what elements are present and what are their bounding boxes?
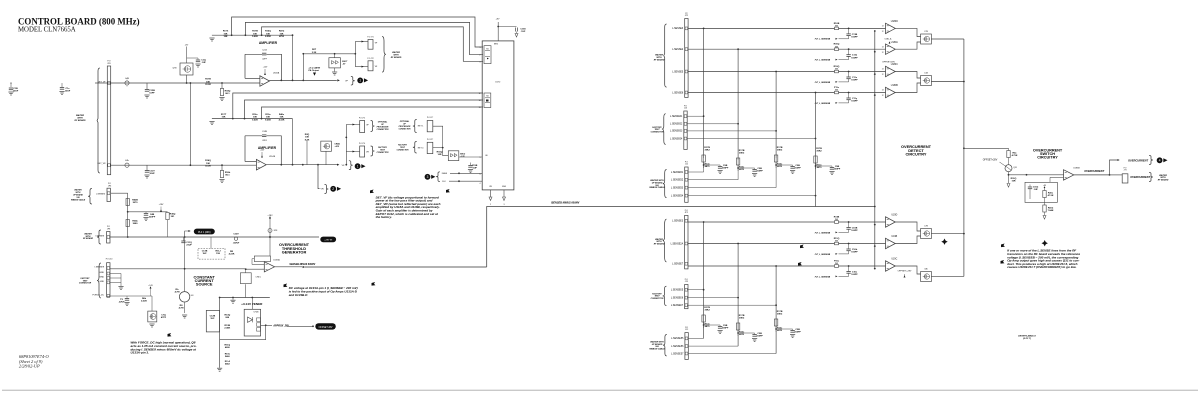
svg-text:FLT_L_SENSE6B: FLT_L_SENSE6B: [815, 254, 831, 256]
svg-text:GENERATOR: GENERATOR: [282, 250, 307, 255]
svg-text:TEST: TEST: [83, 280, 89, 282]
svg-text:FLT_L_SENSE6B: FLT_L_SENSE6B: [815, 103, 831, 105]
svg-text:OFFSET.28V: OFFSET.28V: [882, 61, 895, 63]
svg-text:.1UF: .1UF: [472, 168, 477, 170]
svg-text:10K: 10K: [206, 163, 210, 165]
svg-text:R7x2: R7x2: [225, 361, 231, 363]
svg-text:10K: 10K: [266, 33, 270, 35]
svg-text:WAITER: WAITER: [76, 115, 85, 117]
svg-text:1: 1: [359, 79, 361, 83]
svg-text:L.SENSE55: L.SENSE55: [671, 338, 684, 340]
svg-text:CONNECTOR: CONNECTOR: [79, 283, 92, 285]
svg-text:RF BOARD: RF BOARD: [1158, 179, 1169, 181]
svg-text:CIRCUITRY: CIRCUITRY: [905, 152, 926, 157]
svg-text:OFFSET 28V: OFFSET 28V: [319, 327, 333, 329]
svg-text:J13: J13: [685, 281, 688, 283]
svg-text:U19B: U19B: [891, 236, 897, 238]
svg-text:R17B: R17B: [739, 315, 745, 317]
svg-text:P.O: P.O: [108, 183, 112, 185]
svg-text:R17B: R17B: [704, 307, 710, 309]
svg-text:VIA: VIA: [655, 346, 659, 348]
svg-text:FLT_L_SENSE6B: FLT_L_SENSE6B: [815, 60, 831, 62]
svg-text:C13B: C13B: [202, 251, 208, 253]
svg-text:100PF: 100PF: [851, 252, 858, 254]
svg-text:M2: M2: [486, 96, 488, 98]
svg-text:4: 4: [480, 183, 481, 185]
svg-text:UP BOARD: UP BOARD: [652, 344, 663, 346]
svg-text:FACTORY: FACTORY: [652, 127, 662, 129]
svg-text:C9B: C9B: [795, 329, 800, 331]
svg-text:4: 4: [480, 61, 481, 63]
svg-text:TEST: TEST: [654, 296, 660, 298]
svg-text:P.O J?2: P.O J?2: [359, 118, 365, 120]
svg-text:WAITER: WAITER: [84, 234, 92, 236]
svg-text:R16Q: R16Q: [437, 152, 443, 154]
svg-text:MRG: MRG: [494, 44, 499, 46]
svg-text:100PF: 100PF: [794, 332, 801, 334]
svg-text:R17B: R17B: [252, 31, 258, 33]
svg-text:FACTORY: FACTORY: [81, 278, 91, 280]
svg-text:3670: 3670: [133, 202, 139, 204]
svg-text:causes U1069-PH 7 (OVERCURREN: causes U1069-PH 7 (OVERCURRENT) to go lo…: [1007, 265, 1076, 269]
svg-text:CIRCUITRY: CIRCUITRY: [1037, 156, 1058, 160]
svg-text:R13Q: R13Q: [224, 315, 230, 317]
svg-text:10K: 10K: [279, 33, 283, 35]
svg-text:2: 2: [490, 204, 491, 206]
svg-text:J13: J13: [684, 108, 687, 110]
svg-text:10UF: 10UF: [13, 91, 19, 93]
svg-text:C11y: C11y: [852, 98, 858, 100]
svg-text:R17T: R17T: [221, 114, 227, 116]
svg-text:10R: 10R: [1011, 181, 1015, 183]
svg-text:R2Q: R2Q: [305, 134, 310, 136]
svg-text:L.SENSE06: L.SENSE06: [671, 297, 684, 299]
svg-text:8.25K: 8.25K: [265, 36, 271, 38]
svg-text:L.SENSE57: L.SENSE57: [671, 353, 684, 355]
svg-text:U114B: U114B: [269, 156, 276, 158]
svg-text:R11J: R11J: [215, 251, 221, 253]
svg-text:.1UF: .1UF: [1033, 189, 1038, 191]
svg-text:RF BOARD: RF BOARD: [83, 238, 94, 240]
svg-text:3: 3: [480, 47, 481, 49]
svg-text:L.SENSE01: L.SENSE01: [670, 116, 683, 118]
svg-text:R11B: R11B: [834, 216, 840, 218]
svg-text:L.SENSE07: L.SENSE07: [671, 305, 684, 307]
svg-text:100PF: 100PF: [851, 274, 858, 276]
svg-text:FACTORY: FACTORY: [398, 144, 408, 146]
svg-text:100PF: 100PF: [851, 37, 858, 39]
svg-text:SENSEB MINUS 600MV: SENSEB MINUS 600MV: [289, 264, 315, 266]
svg-text:OFFSET+28V: OFFSET+28V: [898, 271, 912, 273]
svg-text:2: 2: [480, 55, 481, 57]
svg-text:+28V: +28V: [159, 204, 164, 206]
svg-text:P.O: P.O: [107, 61, 111, 63]
svg-text:C10b: C10b: [852, 249, 858, 251]
svg-text:+8V: +8V: [496, 19, 500, 21]
svg-text:33.2K: 33.2K: [205, 84, 211, 86]
svg-text:R17B: R17B: [777, 147, 783, 149]
svg-text:RE: RE: [230, 251, 234, 253]
svg-text:P.O: P.O: [684, 105, 688, 107]
svg-text:P.O: P.O: [685, 327, 689, 329]
svg-text:R18Q: R18Q: [225, 91, 231, 93]
svg-text:10UF: 10UF: [149, 173, 155, 175]
svg-text:R17B: R17B: [816, 148, 822, 150]
svg-text:L.SENSE02: L.SENSE02: [670, 124, 683, 126]
svg-text:RET 1: RET 1: [418, 126, 425, 128]
svg-text:PROCESSOR: PROCESSOR: [377, 127, 389, 129]
svg-text:10K: 10K: [279, 117, 283, 119]
svg-text:5: 5: [480, 157, 481, 159]
svg-text:P.O J10: P.O J10: [106, 259, 113, 261]
svg-text:OFFSET+28V: OFFSET+28V: [983, 160, 998, 162]
svg-text:5.62K: 5.62K: [252, 36, 258, 38]
svg-text:RIBBON CABLE: RIBBON CABLE: [649, 348, 665, 350]
svg-text:WITH: WITH: [656, 241, 662, 243]
svg-text:JP2: JP2: [685, 212, 688, 214]
svg-text:I.SENSE9: I.SENSE9: [95, 267, 105, 269]
svg-text:L.SENSE05: L.SENSE05: [671, 290, 684, 292]
svg-text:100PF: 100PF: [756, 171, 763, 173]
svg-text:R18b: R18b: [225, 172, 231, 174]
svg-text:U180B: U180B: [891, 85, 898, 87]
svg-text:+12V: +12V: [335, 146, 340, 148]
svg-text:OPTIONAL: OPTIONAL: [400, 121, 410, 123]
svg-text:100PF: 100PF: [851, 57, 858, 59]
svg-text:U180C: U180C: [891, 64, 898, 66]
svg-text:WAITER: WAITER: [1159, 175, 1167, 177]
svg-text:JP6: JP6: [108, 185, 111, 187]
svg-text:12: 12: [479, 93, 481, 95]
svg-text:1UF: 1UF: [210, 318, 215, 320]
svg-text:RIBBON CABLE: RIBBON CABLE: [71, 200, 86, 202]
svg-text:10K: 10K: [206, 81, 210, 83]
svg-text:C24B: C24B: [262, 131, 268, 133]
svg-text:39K2: 39K2: [816, 151, 822, 153]
svg-text:ISENSEB MINUS 600MV: ISENSEB MINUS 600MV: [551, 202, 580, 205]
svg-text:R19x: R19x: [265, 114, 271, 116]
svg-text:C15B: C15B: [149, 90, 155, 92]
svg-text:+28V: +28V: [267, 215, 273, 217]
svg-text:UP BOARD: UP BOARD: [73, 195, 83, 197]
svg-text:JP2: JP2: [685, 15, 688, 17]
svg-text:P.O J?2: P.O J?2: [367, 58, 373, 60]
svg-text:L.SENSE2: L.SENSE2: [672, 49, 684, 51]
svg-text:C9B: C9B: [723, 165, 728, 167]
svg-text:OPTIONAL: OPTIONAL: [378, 121, 388, 123]
svg-text:10R: 10R: [437, 154, 441, 156]
svg-text:WITH: WITH: [393, 54, 399, 56]
svg-text:U172: U172: [495, 82, 501, 84]
svg-text:P.O J?4: P.O J?4: [359, 143, 365, 145]
svg-text:R10B: R10B: [834, 23, 840, 25]
svg-text:39K2: 39K2: [739, 318, 745, 320]
svg-text:51PF: 51PF: [149, 93, 155, 95]
svg-text:C8b: C8b: [924, 269, 927, 271]
svg-text:L.SENSE53: L.SENSE53: [671, 187, 684, 189]
svg-text:UP BOARD: UP BOARD: [652, 183, 663, 185]
svg-text:P10x: P10x: [834, 260, 840, 262]
svg-text:8.25K: 8.25K: [265, 119, 271, 121]
svg-text:100PF: 100PF: [794, 168, 801, 170]
svg-text:220PF: 220PF: [149, 217, 156, 219]
svg-text:C11x: C11x: [852, 77, 858, 79]
svg-text:SOURCE: SOURCE: [196, 282, 213, 287]
svg-text:P.O: P.O: [685, 279, 689, 281]
svg-text:R17B: R17B: [704, 147, 710, 149]
svg-text:39K2: 39K2: [739, 153, 745, 155]
svg-text:P.O: P.O: [685, 161, 689, 163]
svg-text:WITH: WITH: [1160, 177, 1166, 179]
svg-text:L.SENSE03: L.SENSE03: [670, 131, 683, 133]
svg-text:RF BOARD: RF BOARD: [74, 120, 86, 122]
svg-text:MM-T: MM-T: [342, 61, 348, 63]
svg-text:R16x: R16x: [252, 114, 258, 116]
svg-text:J?3: J?3: [1124, 170, 1127, 172]
svg-text:GND: GND: [99, 272, 104, 274]
svg-text:P11x: P11x: [834, 87, 840, 89]
svg-text:Q7B: Q7B: [172, 68, 177, 70]
svg-text:RF BOARD: RF BOARD: [654, 59, 665, 61]
svg-text:PROCESSOR: PROCESSOR: [399, 126, 411, 128]
svg-text:WAITER: WAITER: [655, 55, 663, 57]
svg-text:R6b: R6b: [142, 298, 147, 300]
svg-text:5: 5: [480, 174, 481, 176]
svg-text:FLT_L_SENSE6B: FLT_L_SENSE6B: [815, 39, 831, 41]
svg-text:R17h: R17h: [223, 31, 229, 33]
svg-text:WAITER WITH: WAITER WITH: [650, 342, 664, 344]
svg-text:MM-b: MM-b: [460, 154, 466, 156]
svg-text:2/28/02-UP: 2/28/02-UP: [19, 364, 40, 369]
svg-text:C9B: C9B: [757, 333, 762, 335]
svg-text:39K2: 39K2: [704, 150, 710, 152]
svg-text:C9B: C9B: [795, 165, 800, 167]
svg-text:AMPLIFIER: AMPLIFIER: [259, 41, 278, 45]
svg-text:CONNECTOR: CONNECTOR: [377, 129, 390, 131]
svg-text:TEST: TEST: [654, 129, 660, 131]
svg-text:10K: 10K: [221, 117, 225, 119]
svg-text:CONNECTOR: CONNECTOR: [399, 129, 412, 131]
svg-text:WITH: WITH: [86, 236, 91, 238]
svg-text:CLK: CLK: [442, 181, 447, 183]
svg-text:R11b: R11b: [225, 353, 231, 355]
svg-text:CONNECTOR: CONNECTOR: [397, 150, 410, 152]
svg-text:FLT_L_SENSE6B: FLT_L_SENSE6B: [815, 232, 831, 234]
svg-text:U19C: U19C: [891, 259, 897, 261]
svg-text:C11B: C11B: [852, 34, 858, 36]
svg-text:CONNECTOR: CONNECTOR: [651, 132, 664, 134]
svg-text:+28V IN: +28V IN: [324, 240, 332, 242]
svg-text:WITH: WITH: [656, 57, 662, 59]
svg-text:U2FF: U2FF: [262, 140, 268, 142]
svg-text:P.O: P.O: [107, 226, 111, 228]
svg-text:CONTROL BOARD (800 MHz): CONTROL BOARD (800 MHz): [18, 16, 140, 26]
svg-text:CONNECTOR: CONNECTOR: [651, 298, 664, 300]
svg-text:MODEL CLN7665A: MODEL CLN7665A: [18, 27, 76, 34]
svg-text:GND: GND: [99, 277, 104, 279]
svg-text:L.SENSE54: L.SENSE54: [671, 195, 684, 197]
svg-text:R10Q: R10Q: [834, 66, 840, 68]
svg-text:21UF: 21UF: [186, 245, 192, 247]
svg-text:.1UF: .1UF: [521, 31, 526, 33]
svg-text:-8V: -8V: [185, 45, 189, 47]
svg-text:L.SENSE3: L.SENSE3: [672, 28, 684, 30]
svg-text:WITH: WITH: [77, 118, 83, 120]
svg-text:L.SENSE52: L.SENSE52: [671, 180, 684, 182]
svg-text:RF BOARD: RF BOARD: [391, 57, 402, 59]
svg-text:L.SENSE51: L.SENSE51: [671, 172, 684, 174]
svg-text:14: 14: [479, 100, 481, 102]
svg-text:P.O: P.O: [685, 210, 689, 212]
svg-text:U186B: U186B: [1073, 168, 1080, 170]
svg-text:L.SENSE6: L.SENSE6: [672, 92, 684, 94]
svg-text:R36Q: R36Q: [170, 214, 176, 216]
svg-text:100PF: 100PF: [851, 230, 858, 232]
svg-text:R91Q: R91Q: [1011, 178, 1017, 180]
svg-text:RET 4: RET 4: [418, 148, 425, 150]
svg-text:C12T: C12T: [149, 171, 155, 173]
svg-text:RIBBON CABLE: RIBBON CABLE: [649, 187, 665, 189]
svg-text:WAITER WITH: WAITER WITH: [650, 180, 664, 182]
svg-text:WITH: WITH: [76, 192, 81, 194]
svg-text:39K2: 39K2: [777, 150, 783, 152]
svg-text:13: 13: [479, 107, 481, 109]
svg-text:GND: GND: [99, 281, 104, 283]
svg-text:the factory.: the factory.: [376, 215, 392, 219]
svg-text:C10b: C10b: [1033, 187, 1039, 189]
svg-text:100PF: 100PF: [851, 101, 858, 103]
svg-text:L.SENSE04: L.SENSE04: [670, 138, 683, 140]
svg-text:Q31: Q31: [1013, 167, 1017, 169]
svg-text:R2T: R2T: [312, 49, 317, 51]
svg-text:100PF: 100PF: [834, 169, 841, 171]
svg-text:4: 4: [1159, 158, 1161, 162]
svg-text:C9B: C9B: [835, 166, 840, 168]
svg-text:100PF: 100PF: [722, 328, 729, 330]
svg-text:G4B: G4B: [125, 78, 130, 80]
svg-text:100PF: 100PF: [851, 80, 858, 82]
svg-text:2: 2: [332, 187, 334, 191]
svg-text:C11Q: C11Q: [186, 242, 192, 244]
svg-text:L.SENSE56: L.SENSE56: [671, 346, 684, 348]
svg-text:PLF 1 (20K): PLF 1 (20K): [198, 232, 211, 234]
svg-text:.1UF: .1UF: [201, 62, 206, 64]
svg-text:100PF: 100PF: [722, 168, 729, 170]
svg-text:+14V: +14V: [148, 285, 153, 287]
svg-text:5.62K: 5.62K: [252, 119, 258, 121]
svg-text:U19D: U19D: [891, 215, 897, 217]
svg-text:33.2K: 33.2K: [205, 166, 211, 168]
svg-text:P.O J1?: P.O J1?: [427, 117, 433, 119]
svg-text:L.SENSE7: L.SENSE7: [672, 264, 684, 266]
svg-text:C10x: C10x: [852, 272, 858, 274]
svg-text:CONNECTOR: CONNECTOR: [377, 152, 390, 154]
svg-text:APPROX .28V: APPROX .28V: [272, 325, 289, 328]
svg-text:R01Q: R01Q: [834, 44, 840, 46]
svg-text:VIA: VIA: [655, 185, 659, 187]
svg-text:(2 OF 7): (2 OF 7): [1023, 338, 1031, 340]
svg-text:L.SENSE3: L.SENSE3: [672, 221, 684, 223]
svg-text:3680: 3680: [133, 223, 139, 225]
svg-text:U180D: U180D: [891, 21, 898, 23]
svg-text:M1: M1: [486, 49, 488, 51]
svg-text:10K: 10K: [305, 137, 309, 139]
svg-text:P2: P2: [685, 13, 687, 15]
svg-text:39K2: 39K2: [704, 310, 710, 312]
svg-text:3: 3: [504, 204, 505, 206]
svg-text:FLT_L_SENSE6B: FLT_L_SENSE6B: [815, 276, 831, 278]
svg-text:JP8: JP8: [107, 228, 110, 230]
svg-text:C9B: C9B: [723, 325, 728, 327]
svg-text:16K: 16K: [223, 36, 227, 38]
svg-text:R13B: R13B: [225, 325, 231, 327]
svg-text:C9B: C9B: [757, 168, 762, 170]
svg-text:RF BOARD: RF BOARD: [654, 243, 665, 245]
svg-text:I.SENSE8: I.SENSE8: [95, 236, 104, 238]
svg-text:L.SENSE5: L.SENSE5: [672, 71, 684, 73]
svg-text:WAITER: WAITER: [392, 52, 400, 54]
svg-text:10K: 10K: [223, 33, 227, 35]
svg-text:39K2: 39K2: [777, 314, 783, 316]
svg-text:3.3K: 3.3K: [312, 52, 317, 54]
svg-text:L.SENSE6: L.SENSE6: [96, 193, 105, 195]
svg-text:FACTORY: FACTORY: [652, 293, 662, 295]
svg-text:10K: 10K: [253, 33, 257, 35]
svg-text:CRb's: CRb's: [256, 277, 261, 279]
svg-text:C1B: C1B: [13, 88, 18, 90]
svg-text:VR: VR: [320, 189, 323, 191]
svg-text:and U133B-D: and U133B-D: [289, 293, 309, 297]
svg-text:100PF: 100PF: [756, 336, 763, 338]
svg-text:R17B: R17B: [739, 150, 745, 152]
svg-text:1UF: 1UF: [202, 253, 207, 255]
svg-text:U?4B: U?4B: [254, 312, 259, 314]
svg-text:J12: J12: [685, 329, 688, 331]
svg-text:DET_VR: DET_VR: [98, 163, 106, 165]
svg-text:10K: 10K: [253, 117, 257, 119]
svg-text:C10B: C10B: [852, 228, 858, 230]
svg-text:+14V: +14V: [263, 67, 268, 69]
svg-text:3: 3: [427, 175, 429, 179]
svg-text:R16Q: R16Q: [265, 31, 271, 33]
svg-text:R11Q: R11Q: [225, 344, 231, 346]
svg-text:R17B: R17B: [205, 79, 211, 81]
svg-text:FORCE_DC: FORCE_DC: [92, 295, 104, 297]
svg-text:C1Q: C1Q: [201, 60, 206, 62]
svg-text:WAITER: WAITER: [74, 189, 82, 191]
svg-text:P.O J2?: P.O J2?: [427, 139, 433, 141]
svg-text:AMPLIFIER: AMPLIFIER: [258, 146, 277, 150]
svg-text:U2FF: U2FF: [262, 59, 268, 61]
svg-text:R17B: R17B: [777, 311, 783, 313]
svg-text:WAITER: WAITER: [655, 239, 663, 241]
svg-text:C159: C159: [520, 29, 526, 31]
svg-text:J12: J12: [685, 164, 688, 166]
svg-text:C15B: C15B: [472, 165, 478, 167]
svg-text:10UF: 10UF: [65, 91, 71, 93]
svg-text:R11Q: R11Q: [834, 238, 840, 240]
svg-text:10K: 10K: [266, 117, 270, 119]
svg-text:C11b: C11b: [852, 55, 858, 57]
svg-text:P.O J?1: P.O J?1: [367, 37, 373, 39]
svg-text:U133A-pin 3.: U133A-pin 3.: [131, 351, 150, 355]
svg-text:FLT_L_SENSE6B: FLT_L_SENSE6B: [815, 82, 831, 84]
svg-text:C12B: C12B: [210, 316, 216, 318]
svg-text:C7Q: C7Q: [161, 315, 166, 317]
svg-text:FACTORY: FACTORY: [378, 147, 388, 149]
svg-text:1: 1: [357, 164, 359, 168]
svg-text:GND: GND: [502, 186, 507, 188]
